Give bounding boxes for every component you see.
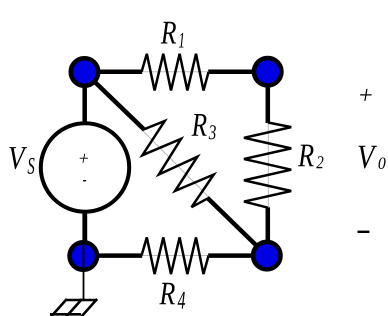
label R1: [161, 22, 176, 44]
wire R4 to BR node: [208, 253, 267, 258]
resistor R1 zigzag: [142, 54, 209, 91]
node BR: [253, 242, 281, 270]
label R3 subscript 3: [209, 125, 216, 139]
ground right diagonal: [82, 299, 98, 316]
voltage source VS circle: [41, 123, 129, 211]
wire BL node to ground (thin): [83, 242, 85, 300]
wire R3 to BR node: [207, 198, 266, 256]
plus sign output: [359, 89, 372, 101]
label R4 subscript 4: [178, 292, 185, 309]
resistor R4 zigzag: [142, 237, 209, 274]
label V0: [359, 146, 378, 169]
node TR: [254, 58, 282, 86]
node TL: [71, 58, 99, 86]
label R4: [159, 283, 175, 305]
wire TL node to VS top: [82, 72, 87, 125]
wire TL node to R3: [85, 72, 145, 130]
label R1 subscript 1: [179, 33, 184, 48]
node BL: [70, 242, 98, 270]
label V0 subscript 0: [379, 158, 386, 169]
resistor R3 zigzag: [142, 121, 213, 207]
ground left diagonal: [51, 299, 67, 316]
minus sign output: [358, 231, 370, 233]
resistor R3 baseline: [85, 72, 267, 256]
label VS: [9, 147, 27, 169]
label R3: [191, 114, 206, 136]
wire VS bottom to BL node: [82, 210, 87, 245]
resistor R2 baseline: [267, 123, 269, 208]
resistor R4 baseline: [142, 254, 209, 256]
label VS subscript S: [28, 158, 35, 174]
label R2: [298, 145, 314, 167]
plus sign in VS: [79, 154, 89, 163]
minus sign in VS: [83, 180, 86, 181]
wire BL node to R4: [83, 253, 142, 258]
wire TR node to R2: [266, 72, 271, 123]
ground bottom line: [50, 313, 81, 316]
wire R2 to BR node: [266, 207, 271, 255]
ground middle diagonal: [66, 299, 82, 316]
resistor R1 baseline: [142, 71, 209, 73]
label R2 subscript 2: [316, 156, 323, 168]
resistor R2 zigzag: [244, 123, 291, 208]
ground top line: [66, 299, 97, 302]
wire TL node to R1: [85, 70, 143, 75]
wire R1 to TR node: [208, 70, 268, 75]
